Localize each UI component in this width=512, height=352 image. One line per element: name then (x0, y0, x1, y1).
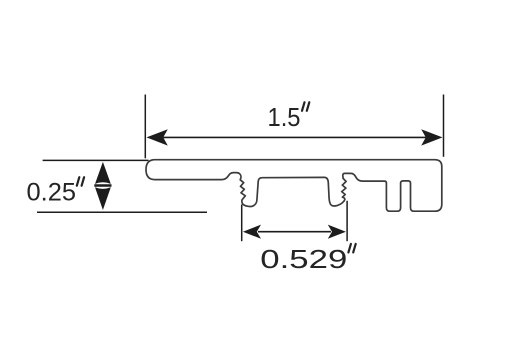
svg-text:0.529: 0.529 (260, 244, 347, 274)
svg-text:1.5: 1.5 (268, 102, 301, 132)
svg-text:0.25: 0.25 (27, 178, 77, 206)
